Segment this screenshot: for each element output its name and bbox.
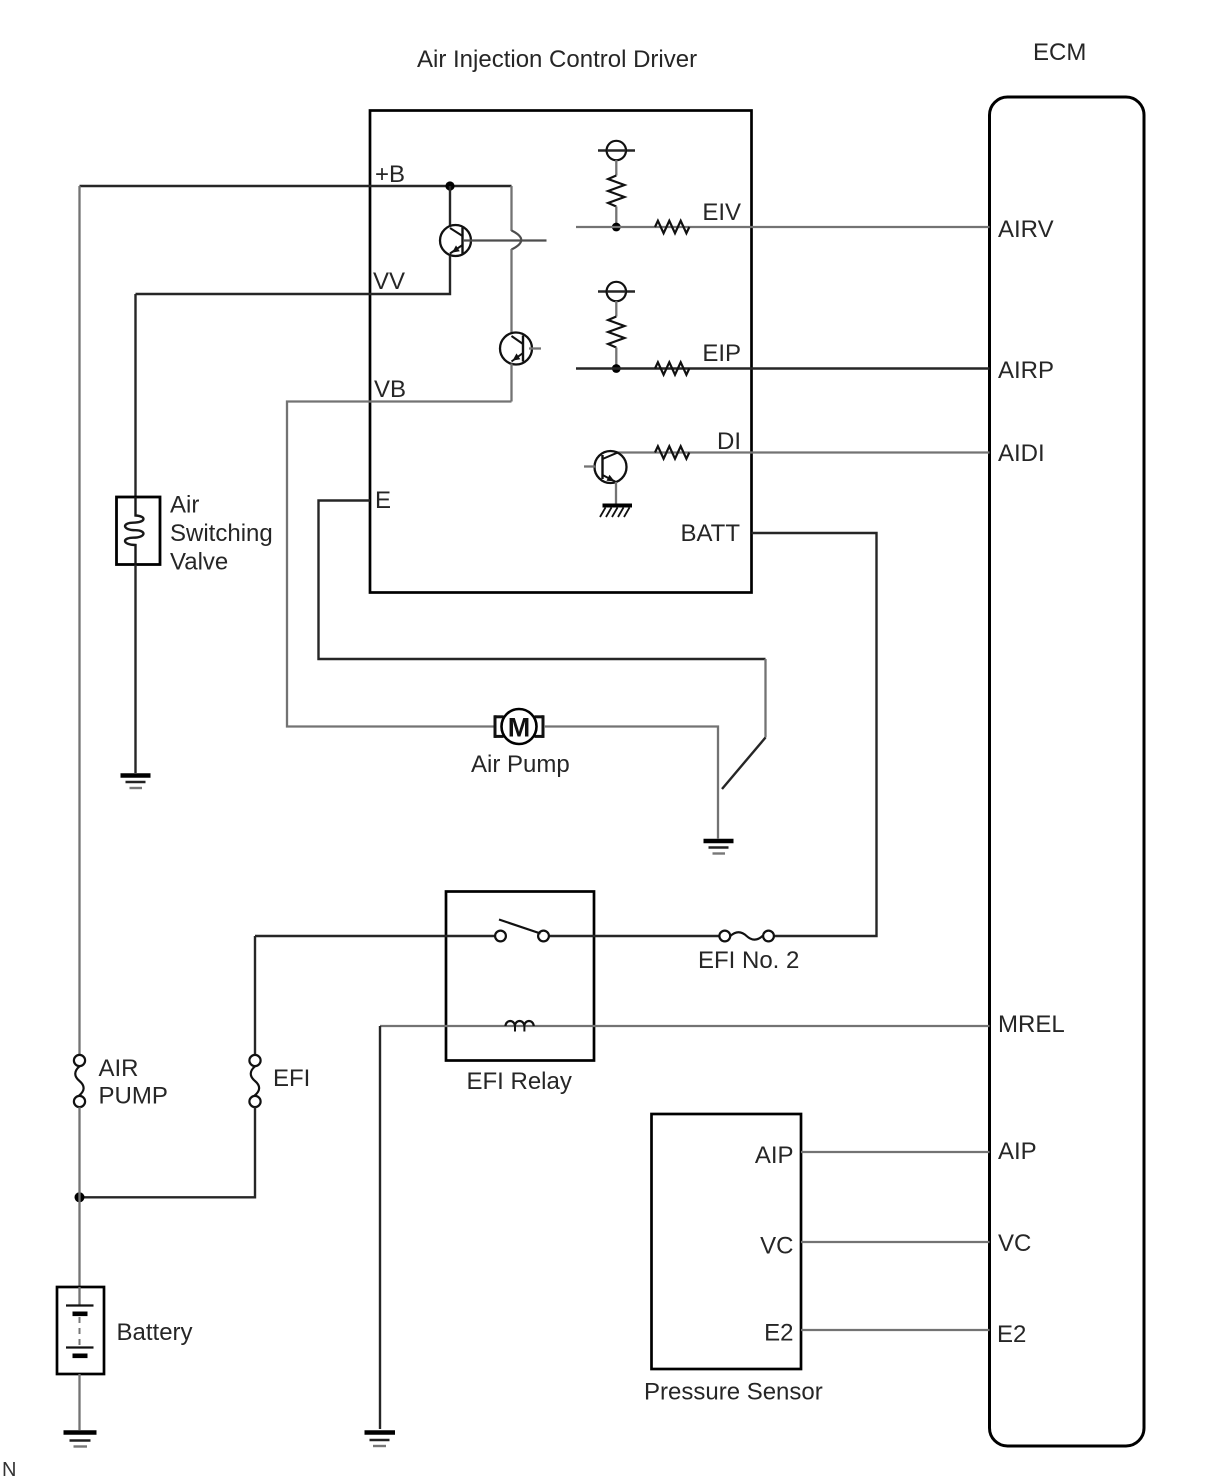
wire VB run bbox=[287, 402, 512, 727]
wire Q2 emitter to VB bbox=[510, 364, 512, 402]
svg-text:E2: E2 bbox=[764, 1320, 793, 1347]
wire pull-up 1 top bbox=[615, 160, 617, 176]
wire Q1 emitter to VV bbox=[136, 256, 451, 295]
svg-text:Battery: Battery bbox=[117, 1319, 193, 1346]
svg-text:VB: VB bbox=[374, 376, 406, 403]
svg-text:DI: DI bbox=[717, 428, 741, 455]
svg-text:EFI Relay: EFI Relay bbox=[467, 1068, 572, 1095]
wire +B horizontal bbox=[80, 185, 512, 187]
svg-text:AIDI: AIDI bbox=[998, 440, 1045, 467]
ground (MREL) bbox=[365, 1433, 396, 1447]
svg-text:PUMP: PUMP bbox=[99, 1083, 168, 1110]
wire EFI fuse to junction bbox=[80, 1107, 256, 1197]
wire EIP line bbox=[576, 367, 990, 369]
svg-text:Valve: Valve bbox=[170, 549, 228, 576]
resistor DI series bbox=[655, 446, 689, 458]
svg-text:ECM: ECM bbox=[1033, 39, 1086, 66]
pull-up source symbol 1 bbox=[598, 141, 635, 160]
svg-text:EIP: EIP bbox=[702, 340, 741, 367]
svg-text:MREL: MREL bbox=[998, 1011, 1065, 1038]
relay contact left bbox=[495, 931, 506, 942]
motor air pump bbox=[495, 709, 544, 744]
resistor pull-up 2 bbox=[608, 317, 624, 348]
wire VC bbox=[801, 1241, 990, 1243]
svg-text:Pressure Sensor: Pressure Sensor bbox=[644, 1379, 823, 1406]
svg-text:EFI No. 2: EFI No. 2 bbox=[698, 947, 799, 974]
switch blade (air pump switch) bbox=[722, 738, 766, 790]
svg-text:AIRV: AIRV bbox=[998, 216, 1054, 243]
transistor Q2 bbox=[500, 333, 532, 365]
wire pull-up 2 bottom bbox=[615, 348, 617, 369]
svg-text:Switching: Switching bbox=[170, 520, 273, 547]
svg-text:EIV: EIV bbox=[702, 199, 741, 226]
fuse EFI bbox=[249, 1055, 260, 1107]
svg-text:N: N bbox=[2, 1459, 16, 1481]
node EIP junction bbox=[612, 364, 621, 373]
transistor Q1 bbox=[440, 225, 471, 256]
wire relay contact line left bbox=[255, 935, 496, 937]
svg-text:AIRP: AIRP bbox=[998, 357, 1054, 384]
wire VV valve drop bbox=[134, 294, 136, 498]
wire E2 bbox=[801, 1329, 990, 1331]
wire E run bbox=[319, 501, 766, 660]
wire air pump to ground bbox=[544, 727, 718, 839]
node EIV junction bbox=[612, 223, 621, 232]
svg-text:+B: +B bbox=[375, 161, 405, 188]
valve box (Air Switching Valve) bbox=[117, 497, 161, 565]
wire Q1 base stub bbox=[463, 239, 547, 241]
wire valve to ground bbox=[134, 565, 136, 773]
relay coil bbox=[506, 1021, 534, 1026]
driver box (Air Injection Control Driver outline) bbox=[370, 111, 752, 593]
svg-text:M: M bbox=[508, 712, 531, 742]
wire vertical from +B corner down to hop bbox=[510, 186, 512, 231]
wire pull-up 2 top bbox=[615, 301, 617, 317]
wire MREL run with relay coil bbox=[380, 1025, 990, 1027]
node battery junction bbox=[75, 1192, 85, 1202]
wire fuse to battery bbox=[78, 1107, 80, 1287]
sensor box (Pressure Sensor) bbox=[652, 1114, 802, 1369]
ECM box bbox=[990, 97, 1145, 1446]
coil of air switching valve bbox=[125, 497, 143, 565]
svg-text:AIP: AIP bbox=[998, 1138, 1037, 1165]
wire relay contact line right bbox=[549, 935, 720, 937]
wire EFI branch vertical bbox=[254, 936, 256, 1055]
fuse EFI No. 2 bbox=[719, 931, 774, 942]
svg-text:VC: VC bbox=[998, 1230, 1031, 1257]
svg-text:VV: VV bbox=[373, 268, 405, 295]
wire hop over base stub bbox=[512, 231, 522, 250]
relay contact right bbox=[538, 931, 549, 942]
ground (air switching valve) bbox=[121, 776, 151, 789]
svg-text:E: E bbox=[375, 487, 391, 514]
resistor EIV series bbox=[655, 221, 689, 233]
wire battery to ground bbox=[78, 1374, 80, 1430]
wire E drop to switch bbox=[764, 659, 766, 738]
pull-up source symbol 2 bbox=[598, 282, 635, 301]
wire DI line bbox=[616, 451, 990, 453]
svg-text:Air Pump: Air Pump bbox=[471, 751, 570, 778]
wire AIP bbox=[801, 1151, 990, 1153]
relay box (EFI Relay) bbox=[446, 892, 594, 1061]
resistor pull-up 1 bbox=[608, 176, 624, 207]
resistor EIP series bbox=[655, 362, 689, 374]
wire Q3 base stub bbox=[584, 465, 595, 467]
transistor Q3 bbox=[595, 451, 627, 483]
ground (battery) bbox=[64, 1433, 97, 1447]
wire pull-up 1 bottom bbox=[615, 207, 617, 228]
wire BATT run bbox=[752, 533, 877, 936]
relay switch blade bbox=[499, 920, 541, 934]
svg-text:Air: Air bbox=[170, 492, 199, 519]
wire Q1 collector lead bbox=[449, 186, 451, 226]
wire EIV line bbox=[576, 226, 990, 228]
wire MREL drop to ground bbox=[379, 1026, 381, 1429]
wire battery feed vertical (left) bbox=[78, 186, 80, 1055]
svg-text:E2: E2 bbox=[997, 1321, 1026, 1348]
svg-text:Air Injection Control Driver: Air Injection Control Driver bbox=[417, 46, 697, 73]
svg-text:AIP: AIP bbox=[755, 1142, 794, 1169]
svg-text:AIR: AIR bbox=[99, 1055, 139, 1082]
wire Q3 emitter bbox=[615, 482, 617, 504]
svg-text:EFI: EFI bbox=[273, 1065, 310, 1092]
wire Q2 base stub bbox=[529, 347, 541, 349]
node junction on +B bbox=[445, 181, 454, 190]
battery bbox=[57, 1287, 104, 1374]
svg-text:BATT: BATT bbox=[680, 520, 740, 547]
wire hop exit down to Q2 bbox=[510, 249, 512, 334]
fuse AIR PUMP bbox=[74, 1055, 85, 1107]
svg-text:VC: VC bbox=[760, 1233, 793, 1260]
ground chassis (Q3) bbox=[600, 506, 632, 518]
ground (air pump) bbox=[704, 841, 734, 854]
